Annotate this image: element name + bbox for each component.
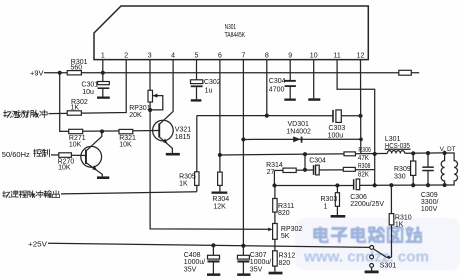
wire +9V rail xyxy=(44,72,419,74)
node junction RP301 bottom xyxy=(148,108,152,112)
node 50/60Hz控制 label xyxy=(2,149,50,159)
svg-text:L301: L301 xyxy=(385,136,401,143)
ground under R303 xyxy=(331,215,346,218)
svg-text:820: 820 xyxy=(279,260,291,267)
svg-text:10K: 10K xyxy=(69,141,82,148)
svg-text:C304: C304 xyxy=(309,158,326,165)
resistor R310 xyxy=(389,185,412,257)
resistor R308 xyxy=(343,163,370,179)
resistor R302 xyxy=(67,99,88,115)
svg-text:R308: R308 xyxy=(358,163,371,170)
switch S301 xyxy=(370,246,397,271)
node junction +25V/C408 xyxy=(211,243,215,247)
capacitor C303 xyxy=(328,110,361,139)
svg-text:RP302: RP302 xyxy=(281,226,303,233)
svg-text:82K: 82K xyxy=(358,171,369,178)
svg-text:1000u/: 1000u/ xyxy=(184,259,205,266)
node junction net155/jumper xyxy=(303,152,307,156)
node junction VD301 / pin 7 xyxy=(241,137,245,141)
wire pin 7 column (+25V feed) xyxy=(242,60,244,246)
svg-text:2: 2 xyxy=(124,53,128,60)
svg-text:4: 4 xyxy=(171,53,175,60)
wire +25V rail xyxy=(48,243,370,247)
resistor R304 xyxy=(212,172,229,211)
ground under C307 xyxy=(237,273,250,276)
wire RP302 wiper line from output feedback xyxy=(150,192,268,229)
wire net C303/pin8/pin12 horizontal xyxy=(197,115,333,117)
wire jumper net155 to net170 xyxy=(304,154,306,170)
node 场逆程脉冲输出 label (CJK) xyxy=(2,191,59,198)
svg-text:10K: 10K xyxy=(119,141,132,148)
capacitor C304 (snubber, mid) xyxy=(309,158,326,175)
node junction coil top xyxy=(443,151,447,155)
svg-text:1815: 1815 xyxy=(175,134,191,141)
svg-text:50/60Hz: 50/60Hz xyxy=(2,150,30,159)
svg-text:R304: R304 xyxy=(212,196,229,203)
svg-text:11: 11 xyxy=(333,53,340,60)
svg-text:C408: C408 xyxy=(184,252,201,259)
svg-text:R303: R303 xyxy=(321,196,338,203)
svg-text:20K: 20K xyxy=(129,112,142,119)
ground under V322 emitter xyxy=(97,176,109,179)
node junction pin 8 xyxy=(265,114,269,118)
svg-text:4700: 4700 xyxy=(269,86,285,93)
resistor R301 xyxy=(67,59,87,75)
wire field flyback pulse output line xyxy=(61,192,197,194)
ground under V321 emitter xyxy=(166,153,180,156)
svg-text:330: 330 xyxy=(394,174,406,181)
wire pin 6 column xyxy=(219,60,221,173)
svg-text:TA8445K: TA8445K xyxy=(225,32,246,39)
ground under C301 xyxy=(97,97,110,99)
node junction coil bottom xyxy=(443,183,447,187)
svg-text:RP301: RP301 xyxy=(129,105,151,112)
watermark haze xyxy=(295,218,460,270)
ground under C304 xyxy=(284,99,296,101)
svg-text:R306: R306 xyxy=(358,147,371,154)
resistor R270 xyxy=(58,153,75,172)
svg-text:1N4002: 1N4002 xyxy=(286,128,311,135)
svg-text:100V: 100V xyxy=(421,206,438,213)
svg-text:9: 9 xyxy=(288,53,292,60)
svg-text:R314: R314 xyxy=(266,162,283,169)
svg-text:100u: 100u xyxy=(328,132,344,139)
svg-text:R309: R309 xyxy=(394,166,411,173)
wire field drive pulse input to pin 2 xyxy=(49,60,127,114)
node 场激励脉冲 label (CJK) xyxy=(3,110,47,118)
svg-text:R305: R305 xyxy=(179,173,196,180)
capacitor C302 xyxy=(191,79,221,99)
svg-text:5: 5 xyxy=(195,53,199,60)
node junction pin 12 / C303 xyxy=(358,114,362,118)
node junction net185/pin11 branch xyxy=(373,183,377,187)
svg-text:7: 7 xyxy=(241,53,245,60)
op-amp/IC N301 TA8445K outline xyxy=(94,6,368,60)
node junction net185/R311 xyxy=(272,183,276,187)
wire pin 10 column xyxy=(313,60,315,99)
watermark 电子电路图站 (CJK) xyxy=(315,227,422,242)
wire pin 1 column xyxy=(102,60,104,82)
svg-text:35V: 35V xyxy=(250,266,263,273)
wire corner net170 down to net185 xyxy=(273,170,275,185)
svg-text:10u: 10u xyxy=(82,89,94,96)
wire pin 9 column xyxy=(289,60,291,80)
svg-text:C307: C307 xyxy=(250,252,267,259)
svg-text:R312: R312 xyxy=(279,253,296,260)
svg-text:www. cndzz. com: www. cndzz. com xyxy=(303,249,429,266)
svg-text:R311: R311 xyxy=(278,203,294,210)
deflection coil V.DT xyxy=(440,146,458,185)
potentiometer RP301 20K xyxy=(129,90,163,119)
wire net185 right segment xyxy=(360,184,445,186)
capacitor C309 xyxy=(421,153,439,213)
svg-text:C309: C309 xyxy=(421,192,438,199)
wire pin 8 column xyxy=(266,60,268,116)
svg-text:35V: 35V xyxy=(184,266,197,273)
svg-text:C302: C302 xyxy=(204,79,221,86)
node junction net155/R309 xyxy=(411,151,415,155)
svg-text:10K: 10K xyxy=(58,165,71,172)
svg-text:27: 27 xyxy=(267,169,275,176)
svg-text:R310: R310 xyxy=(395,215,412,222)
resistor R309 xyxy=(394,153,416,185)
svg-text:1000u/: 1000u/ xyxy=(250,259,271,266)
node junction net170/jumper xyxy=(303,168,307,172)
wire net155 pin6 branch to deflection coil xyxy=(220,153,387,155)
resistor R305 xyxy=(179,172,199,192)
wire drop from +9V to R271 xyxy=(60,73,159,132)
wire R311/RP302/R312 chain vertical xyxy=(274,185,276,271)
svg-text:3300/: 3300/ xyxy=(421,199,439,206)
svg-text:8: 8 xyxy=(265,53,269,60)
ground under C302 xyxy=(191,99,202,101)
node junction +9V to R271 drop xyxy=(58,71,62,75)
capacitor C306 xyxy=(350,179,384,208)
svg-text:1K: 1K xyxy=(179,180,188,187)
svg-text:1K: 1K xyxy=(395,222,404,229)
transistor V322 xyxy=(81,131,103,176)
node junction pin1/+9V xyxy=(101,71,105,75)
potentiometer RP302 5K xyxy=(268,224,302,241)
capacitor C408 xyxy=(184,245,220,273)
node junction net155 / pin11 branch xyxy=(373,152,377,156)
wire pin 5 column xyxy=(196,60,198,80)
ground under C408 xyxy=(207,273,220,276)
node junction net185/C309 xyxy=(426,183,430,187)
svg-text:1K: 1K xyxy=(71,104,80,111)
wire VD301 line xyxy=(243,138,361,140)
ground under R304 xyxy=(212,192,228,194)
node junction pin 6 branch xyxy=(218,153,222,157)
ground under S301 xyxy=(365,271,379,274)
resistor R271 xyxy=(69,129,86,148)
svg-text:3: 3 xyxy=(148,53,152,60)
svg-text:C304: C304 xyxy=(269,78,286,85)
wire pin 12 column xyxy=(360,60,362,154)
resistor R314 xyxy=(266,162,296,176)
resistor R311 xyxy=(273,199,295,218)
diode VD301 1N4002 xyxy=(286,121,311,143)
svg-text:12K: 12K xyxy=(213,204,226,211)
node junction net185/R303 xyxy=(335,183,339,187)
svg-text:1: 1 xyxy=(101,53,105,60)
svg-text:820: 820 xyxy=(278,210,290,217)
svg-text:VD301: VD301 xyxy=(288,121,310,128)
svg-text:+25V: +25V xyxy=(28,241,47,248)
transistor V321 xyxy=(153,60,192,153)
node junction V322 collector on base line xyxy=(100,129,104,133)
svg-text:1u: 1u xyxy=(205,88,213,95)
node junction net185/R310 xyxy=(389,183,393,187)
svg-text:C303: C303 xyxy=(329,125,346,132)
svg-text:V321: V321 xyxy=(175,126,191,133)
wire 50/60Hz control to V322 base xyxy=(51,154,86,157)
svg-text:1: 1 xyxy=(324,204,328,211)
svg-text:47K: 47K xyxy=(358,155,369,162)
wire pin 3 column xyxy=(149,60,151,91)
node junction pin12 line / VD301 xyxy=(359,138,363,142)
unlabeled resistor on +9V rail right end xyxy=(399,70,412,75)
inductor L301 HCS-035 xyxy=(385,136,411,154)
capacitor C304 4700 on pin 9 xyxy=(269,78,296,99)
svg-text:N301: N301 xyxy=(225,24,237,31)
resistor R321 xyxy=(119,129,136,148)
svg-text:6: 6 xyxy=(218,53,222,60)
capacitor C307 xyxy=(237,246,271,274)
resistor R312 xyxy=(273,251,296,267)
wire net155 after L301 xyxy=(405,152,445,154)
ground under pin 10 xyxy=(308,98,320,101)
wire vertical from net corner down to R305 xyxy=(196,116,198,172)
node junction net185/R309 xyxy=(411,183,415,187)
svg-text:10: 10 xyxy=(310,53,318,60)
resistor R303 xyxy=(321,185,340,215)
svg-text:12: 12 xyxy=(357,53,365,60)
svg-text:V. DT: V. DT xyxy=(440,146,456,153)
svg-text:560: 560 xyxy=(71,64,83,71)
capacitor C301 xyxy=(81,81,109,96)
wire net170 (C304/R308 line) xyxy=(274,169,374,172)
svg-text:2200u/25V: 2200u/25V xyxy=(350,201,384,208)
resistor R306 xyxy=(344,147,371,162)
svg-text:+9V: +9V xyxy=(30,70,44,77)
wire pin 11 branch xyxy=(337,60,375,186)
ground under R312 xyxy=(269,272,283,275)
svg-text:5K: 5K xyxy=(281,233,290,240)
wire feedback RP301 bottom down to output line xyxy=(149,110,151,192)
svg-text:C301: C301 xyxy=(81,81,98,88)
wire net185 left segment xyxy=(275,184,354,186)
svg-text:S301: S301 xyxy=(380,263,396,270)
node junction +25V/pin7 column xyxy=(241,244,245,248)
node junction net155/C309 xyxy=(426,151,430,155)
